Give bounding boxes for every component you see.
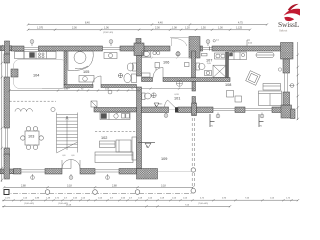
window mark top1 (30, 40, 34, 46)
wall east bottom seg5 (272, 107, 283, 113)
dim line bottom C (2, 199, 299, 201)
window mark bottom3 (106, 174, 110, 179)
hall light circle (108, 90, 112, 94)
svg-text:(1,06 x/45): (1,06 x/45) (24, 203, 34, 205)
wall left upper (4, 54, 10, 63)
dim line top A (27, 23, 268, 25)
svg-text:2,88: 2,88 (112, 184, 117, 187)
french door labels (63, 155, 76, 157)
dim line top B (27, 29, 251, 31)
svg-text:105: 105 (83, 70, 89, 74)
room label 109 (161, 157, 167, 161)
wall right lower (283, 92, 290, 105)
pier SW corner (0, 154, 14, 179)
pier SE corner east wing (281, 105, 295, 119)
wall top segment 5 (200, 46, 203, 51)
window mark east2 (260, 113, 264, 118)
window top W2 (103, 48, 121, 50)
svg-text:101: 101 (174, 97, 180, 101)
door jamb dark pier (175, 107, 178, 112)
entrance porch top (170, 38, 190, 47)
svg-text:2,00: 2,00 (72, 27, 77, 30)
flag 90 east2 (259, 114, 264, 127)
corridor dim (8, 89, 141, 91)
wall bottom west seg1 (14, 169, 22, 175)
french door arcs (62, 160, 80, 169)
pier NW corner (0, 41, 12, 54)
chimney block (11, 69, 18, 77)
svg-text:(2,58 1,65): (2,58 1,65) (103, 32, 113, 34)
sofa 102 (95, 140, 133, 163)
dim text top B (37, 27, 243, 34)
svg-text:1,08: 1,08 (172, 27, 177, 30)
sink 107 (205, 71, 212, 76)
wall east bottom seg1 (142, 107, 169, 113)
wall interior horizontal east seg2 (163, 78, 230, 82)
tiny label B45 (158, 104, 163, 106)
svg-text:8,40: 8,40 (85, 22, 90, 25)
wall top segment 4 (144, 46, 170, 51)
svg-text:1,075: 1,075 (5, 197, 11, 199)
bench 108 (259, 91, 282, 106)
terrace post (191, 168, 195, 172)
room label 102 (101, 136, 107, 140)
axis marker c4 (191, 189, 196, 194)
vent mark 108 (278, 68, 281, 71)
wall between 101 108 (192, 82, 196, 104)
shower 107 (213, 65, 226, 77)
dining table 103 (21, 127, 44, 150)
svg-text:13,18: 13,18 (66, 205, 72, 207)
wall bottom west seg3 (80, 169, 95, 175)
logo text SwissLife (278, 20, 300, 29)
wall left mid (4, 77, 10, 128)
axis dim line E (3, 186, 194, 188)
room label 105 (83, 70, 89, 74)
toilet 107 (196, 63, 205, 70)
armchair 108 (246, 71, 261, 86)
logo swoosh (284, 4, 300, 21)
entrance door 101 arc (165, 100, 176, 110)
window east bottom W8 (213, 108, 235, 110)
wall top segment 2 (39, 46, 103, 51)
pier NE corner (281, 43, 294, 60)
axis dim text (21, 184, 166, 187)
room label 107 (206, 58, 212, 65)
room 106 shelf (142, 51, 160, 57)
room label 108 (225, 83, 231, 87)
elevation flag (247, 40, 253, 46)
room label 101 (174, 94, 180, 101)
open plan dashed 103 (10, 100, 57, 102)
svg-text:108: 108 (225, 83, 231, 87)
svg-text:2,00: 2,00 (155, 27, 160, 30)
dim line left (1, 45, 3, 182)
axis marker c3 (135, 190, 140, 195)
svg-text:(7,06 x/45): (7,06 x/45) (198, 203, 208, 205)
dim text 4,40 (85, 22, 243, 42)
door 107 arc (229, 51, 236, 58)
svg-text:103: 103 (28, 135, 34, 139)
window mark top3 (206, 40, 215, 46)
corridor dim text (64, 89, 134, 91)
section mark A1 (138, 142, 155, 148)
svg-text:3,18: 3,18 (161, 184, 166, 187)
svg-text:1,125: 1,125 (236, 27, 243, 30)
wc 101 toilet (142, 93, 156, 100)
dim text bottom C (5, 197, 291, 199)
svg-text:1,06: 1,06 (104, 27, 109, 30)
svg-text:Select: Select (279, 29, 287, 33)
dim line room 106 (142, 57, 191, 59)
bathtub 105 (68, 51, 123, 78)
vanity 105 (79, 76, 94, 83)
svg-text:3,18: 3,18 (67, 184, 72, 187)
window mark east1 (216, 113, 220, 118)
wall main vertical upper (137, 56, 142, 77)
tv board 102 (132, 137, 137, 160)
terrace edge (158, 171, 196, 173)
room 104 floor line (14, 60, 71, 89)
room 106 dryer (142, 52, 190, 77)
room label 104 (33, 74, 39, 78)
section mark A2 (154, 103, 159, 108)
svg-text:A: A (146, 145, 148, 149)
wall 107 east (226, 52, 229, 78)
window top W3 (203, 47, 213, 51)
washer 105 (104, 53, 117, 59)
dim text bottom D (66, 205, 190, 207)
staircase (57, 113, 78, 154)
window mark bottom2 (69, 174, 73, 179)
dim line bottom D (2, 205, 231, 207)
window mark right (289, 84, 294, 88)
room label 106 (163, 60, 169, 64)
bathroom partition vertical (64, 51, 67, 85)
wc 101 sink (142, 80, 196, 90)
wall interior horizontal west (94, 108, 137, 113)
radiator 107 (202, 53, 227, 59)
wall between 106 107 (192, 51, 196, 78)
wall east bottom seg2 (178, 107, 192, 113)
pier east bottom door (192, 103, 197, 116)
axis marker c2 (93, 190, 98, 195)
door 106 arc (153, 68, 163, 78)
window bottom W6 (21, 170, 45, 172)
dim line right (297, 42, 299, 120)
coat arcs 103 (15, 107, 55, 111)
door mark east (164, 113, 168, 118)
window mark bottom1 (31, 174, 35, 179)
kitchen 108 counter (229, 52, 247, 60)
svg-text:104: 104 (33, 74, 39, 78)
radiator 108 (256, 53, 274, 58)
hall washer (91, 101, 97, 107)
window left W4 (6, 63, 8, 77)
svg-text:A: A (155, 104, 157, 108)
svg-text:1,00: 1,00 (218, 27, 223, 30)
wall main vertical lower (137, 87, 142, 169)
svg-text:4,40: 4,40 (158, 22, 163, 25)
svg-text:109: 109 (161, 157, 167, 161)
svg-text:102: 102 (101, 136, 107, 140)
svg-text:106: 106 (163, 60, 169, 64)
kitchen 102 counter (100, 113, 130, 120)
wall right upper (283, 59, 290, 73)
axis marker c1 (45, 190, 50, 195)
wall top segment 3 (120, 46, 137, 51)
wall interior horizontal east seg1 (142, 78, 153, 82)
window east bottom W9 (245, 108, 272, 110)
axis marker square (4, 190, 9, 195)
wall top segment 1 (11, 46, 24, 51)
pier SE west wing (137, 169, 158, 180)
sofa 108 (263, 84, 281, 91)
room label 103 (28, 135, 34, 139)
flag 90 east1 (210, 114, 215, 127)
window left W5 (6, 128, 8, 148)
terrace dashed posts line (192, 113, 194, 189)
wall left lower (4, 148, 10, 156)
dashed line 102 (95, 131, 136, 133)
toilet 105 (124, 74, 137, 83)
window right W10 (285, 73, 288, 92)
svg-text:2,88: 2,88 (21, 184, 26, 187)
wall bottom west seg2 (45, 169, 62, 175)
sideboard 102 (100, 141, 116, 148)
svg-text:1,075: 1,075 (37, 27, 44, 30)
svg-text:4,75: 4,75 (238, 22, 243, 25)
door mark entrance (176, 51, 180, 55)
window top W1 (24, 48, 39, 50)
tables 108 (227, 91, 242, 103)
wall east bottom seg4 (235, 107, 245, 113)
logo text Select (279, 29, 287, 33)
wall bottom west seg4 (119, 169, 137, 175)
pier top mid (134, 39, 144, 56)
bathroom partition horizontal (64, 85, 137, 88)
sink 105 (127, 63, 136, 71)
svg-text:107: 107 (206, 58, 212, 62)
window bottom W7 (95, 170, 119, 172)
pier top entrance (189, 37, 200, 59)
axis line (4, 192, 193, 194)
bathroom door arc (93, 76, 102, 85)
svg-text:1,20: 1,20 (185, 27, 190, 30)
svg-text:1,50: 1,50 (201, 27, 206, 30)
wall top segment 6 (212, 46, 283, 51)
kitchen 104 counter (15, 52, 57, 59)
dim text bottom C2 (24, 203, 208, 205)
wall east bottom seg3 (197, 107, 214, 113)
window mark top2 (109, 40, 113, 46)
